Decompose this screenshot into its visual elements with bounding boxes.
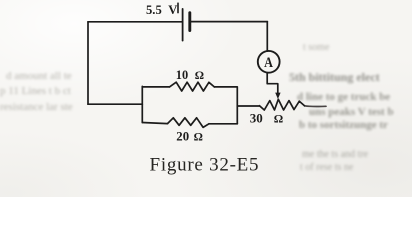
svg-text:Ω: Ω <box>274 112 283 126</box>
wire down to ammeter <box>266 22 268 52</box>
ammeter U1 circle <box>258 51 280 73</box>
wire top-left horizontal <box>88 21 182 23</box>
wire bottom-left connector <box>88 103 142 105</box>
svg-text:Ω: Ω <box>194 131 203 144</box>
svg-text:A: A <box>264 55 273 71</box>
wire top branch left <box>142 86 169 88</box>
wire bottom branch right <box>209 123 237 125</box>
wire box to rheostat <box>237 105 259 107</box>
wiper arrowhead <box>275 93 280 99</box>
battery V1 short plate <box>188 13 191 31</box>
wire bottom branch left <box>142 123 167 124</box>
node box left edge <box>141 86 143 122</box>
svg-text:Figure 32-E5: Figure 32-E5 <box>150 155 260 176</box>
svg-text:20: 20 <box>176 130 189 144</box>
svg-text:Ω: Ω <box>195 69 204 82</box>
wire ammeter to wiper elbow <box>267 73 278 93</box>
resistor R1 10ohm zigzag <box>170 82 215 91</box>
faint bleed-through text right <box>303 43 329 53</box>
wire rheostat open tail <box>305 105 327 108</box>
faint bleed-through text left <box>6 71 72 82</box>
svg-text:30: 30 <box>250 111 263 126</box>
stray mark after V <box>177 3 179 12</box>
resistor R3 30ohm rheostat zigzag <box>260 99 305 110</box>
svg-text:10: 10 <box>176 68 188 82</box>
resistor R2 20ohm zigzag <box>168 118 209 128</box>
svg-text:V: V <box>168 3 177 17</box>
node box right edge <box>236 87 238 124</box>
wire top-right horizontal <box>190 21 267 23</box>
wire left vertical <box>87 22 89 104</box>
svg-text:5.5: 5.5 <box>146 3 162 17</box>
battery V1 long plate <box>182 9 184 41</box>
wire top branch right <box>214 86 237 88</box>
